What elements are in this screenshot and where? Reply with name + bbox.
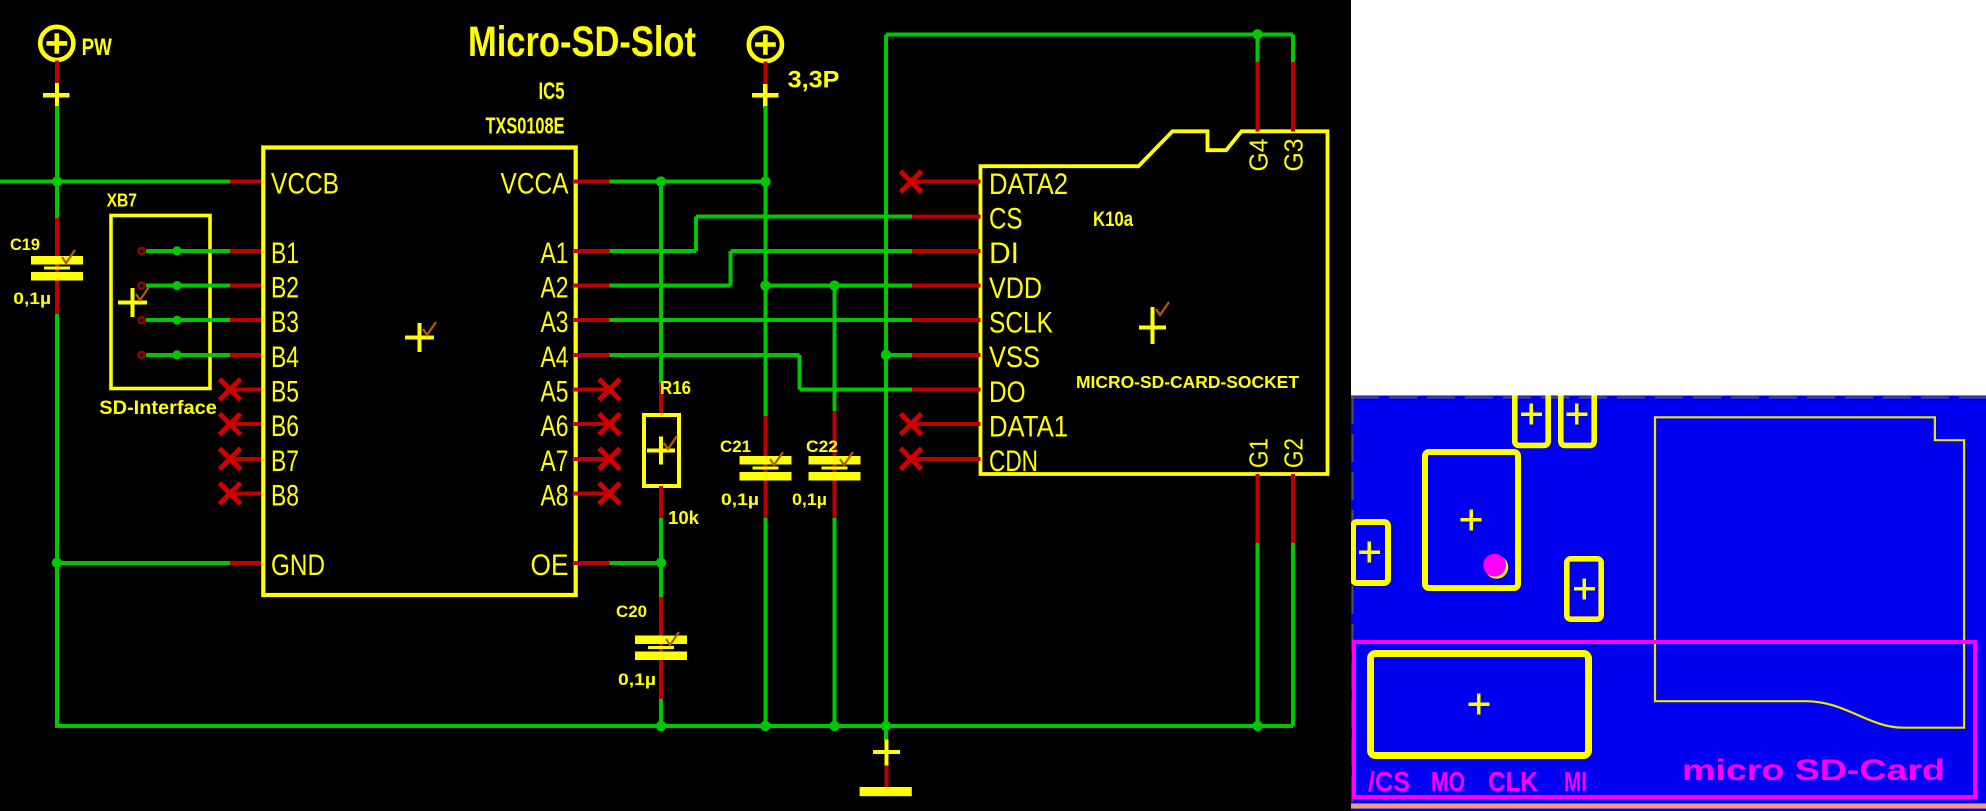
pin OE stub: [574, 561, 610, 565]
pin IC5 B7 stub (n/c): [233, 457, 265, 461]
junction XB7 B1: [172, 246, 181, 255]
svg-text:SCLK: SCLK: [989, 307, 1053, 340]
wire VDD row: [765, 284, 912, 288]
pin K10a DI stub: [912, 249, 981, 253]
junction VCCA/3,3P: [760, 176, 770, 186]
pin XB7 B4 ring: [139, 352, 145, 358]
pin IC5 B6 stub (n/c): [233, 422, 265, 426]
capacitor C19: [31, 256, 83, 281]
pin K10a CDN stub: [912, 457, 981, 461]
svg-text:C21: C21: [720, 437, 751, 456]
wire A2 row: [610, 284, 731, 288]
node C21 origin check: [770, 452, 783, 465]
svg-text:C20: C20: [616, 602, 647, 621]
junction VSS row: [881, 350, 891, 360]
svg-text:R16: R16: [660, 378, 691, 398]
svg-text:DATA2: DATA2: [989, 168, 1068, 201]
svg-text:PW: PW: [82, 34, 113, 61]
no-connect X A7: [599, 448, 620, 469]
node 3,3P pin cross: [752, 84, 778, 108]
no-connect X B8: [220, 483, 241, 504]
wire C20 to rail: [659, 699, 663, 726]
svg-text:MO: MO: [1431, 766, 1465, 797]
pin K10a CS stub: [912, 214, 981, 218]
svg-text:MI: MI: [1564, 766, 1587, 797]
supply PW symbol: [40, 27, 73, 60]
svg-text:B4: B4: [271, 341, 299, 374]
svg-text:Micro-SD-Slot: Micro-SD-Slot: [468, 18, 696, 66]
connector XB7 box: [111, 216, 210, 389]
board dimension dashed top edge: [1351, 396, 1986, 398]
capacitor C20: [635, 636, 687, 661]
svg-text:A7: A7: [541, 445, 569, 478]
pad P6 (large, bottom-left): [1371, 654, 1589, 756]
svg-text:B6: B6: [271, 410, 299, 443]
svg-text:VCCA: VCCA: [501, 168, 569, 201]
node IC5 origin check: [423, 322, 436, 335]
svg-text:VCCB: VCCB: [271, 168, 339, 201]
pin K10a G2 stub: [1291, 474, 1295, 543]
junction VDD row: [760, 280, 770, 290]
svg-text:GND: GND: [271, 549, 325, 582]
svg-text:G2: G2: [1279, 438, 1309, 468]
pin A2 stub: [574, 284, 610, 288]
pin K10a DO stub: [912, 388, 981, 392]
wire C22 to rail: [833, 518, 837, 726]
pin IC5 B5 stub (n/c): [233, 388, 265, 392]
svg-text:B1: B1: [271, 237, 299, 270]
pin A3 stub: [574, 318, 610, 322]
wire C19 to GND row: [55, 314, 59, 563]
junction rail C22: [829, 721, 839, 731]
svg-text:0,1µ: 0,1µ: [721, 490, 759, 509]
junction XB7 B4: [172, 350, 181, 359]
board background white area: [1351, 0, 1986, 396]
wire XB7 B4 to IC: [146, 353, 230, 357]
wire bottom GND rail: [55, 724, 1293, 728]
pin K10a DATA1 stub: [912, 422, 981, 426]
pin IC5 B2 stub: [230, 284, 265, 288]
wire A1-CS vertical: [694, 216, 698, 251]
pad P4 (left edge): [1353, 522, 1388, 583]
pin IC5 B4 stub: [230, 353, 265, 357]
node PW pin cross: [43, 83, 69, 108]
junction OE row: [656, 558, 666, 568]
svg-text:XB7: XB7: [107, 191, 137, 211]
svg-text:DO: DO: [989, 376, 1026, 409]
svg-text:A2: A2: [541, 272, 569, 305]
node R16 origin cross: [647, 437, 675, 465]
svg-text:IC5: IC5: [539, 78, 565, 105]
pin A6 stub (n/c): [574, 422, 606, 426]
via (magenta): [1485, 556, 1508, 579]
wire VCCA row: [610, 180, 766, 184]
node XB7 origin cross: [118, 288, 147, 317]
wire A1 row: [610, 249, 697, 253]
wire left rail drop: [55, 563, 59, 726]
svg-text:A3: A3: [541, 306, 569, 339]
wire net PW vertical: [55, 106, 59, 182]
wire VSS link: [886, 353, 912, 357]
svg-text:A8: A8: [541, 479, 569, 512]
svg-text:G1: G1: [1244, 438, 1274, 468]
wire DO row: [800, 388, 912, 392]
pad P3 (large, upper-left): [1425, 452, 1518, 588]
junction rail C21: [760, 721, 770, 731]
board bottom salmon strip: [1351, 803, 1986, 808]
wire top GND rail: [886, 32, 1293, 36]
wire G1 drop: [1256, 543, 1260, 726]
svg-text:C22: C22: [806, 437, 838, 456]
pin C19 pin1: [55, 218, 59, 315]
wire CS row: [696, 214, 912, 218]
silk frame (magenta): [1354, 642, 1975, 797]
wire SCLK row: [610, 318, 913, 322]
wire GND vertical: [884, 34, 888, 726]
sd-card outline: [1655, 417, 1964, 727]
pin XB7 B3 ring: [139, 317, 145, 323]
svg-text:/CS: /CS: [1368, 766, 1410, 797]
ground symbol bar: [860, 787, 912, 796]
svg-text:A5: A5: [541, 376, 569, 409]
wire C22 column: [833, 286, 837, 412]
svg-text:DATA1: DATA1: [989, 410, 1068, 443]
svg-text:VDD: VDD: [989, 272, 1042, 305]
pin K10a SCLK stub: [912, 318, 981, 322]
pin K10a G4 stub: [1256, 62, 1260, 131]
junction PW/VCCB/C19: [52, 176, 62, 186]
wire net PW row to VCCB: [0, 180, 230, 184]
wire DI row: [731, 249, 913, 253]
junction XB7 B2: [172, 281, 181, 290]
wire A4 row: [610, 353, 800, 357]
pin K10a VDD stub: [912, 284, 981, 288]
ground symbol link: [884, 726, 888, 740]
pin K10a G1 stub: [1256, 474, 1260, 543]
wire XB7 B3 to IC: [146, 318, 230, 322]
pin C20 pin1: [659, 597, 663, 700]
node XB7 origin check: [136, 287, 149, 300]
pin VCCB stub: [230, 180, 265, 184]
ground symbol pin: [884, 765, 888, 788]
pin K10a VSS stub: [912, 353, 981, 357]
wire 3,3P drop: [763, 106, 767, 182]
svg-text:B3: B3: [271, 306, 299, 339]
resistor R16 box: [644, 415, 679, 486]
svg-text:0,1µ: 0,1µ: [792, 490, 827, 509]
pin R16 pin2: [659, 486, 663, 519]
svg-text:G4: G4: [1244, 139, 1274, 172]
junction rail C20: [656, 721, 666, 731]
node C19 origin check: [62, 250, 75, 263]
node IC5 origin cross: [405, 323, 434, 352]
svg-text:3,3P: 3,3P: [788, 67, 840, 94]
no-connect X B7: [220, 448, 241, 469]
pad P1 (top): [1515, 390, 1548, 445]
junction VCCA/R16 column: [656, 176, 666, 186]
wire G2 drop: [1291, 543, 1295, 726]
svg-text:VSS: VSS: [989, 341, 1040, 374]
pad P5 (center): [1567, 559, 1601, 619]
node C22 origin check: [840, 452, 853, 465]
svg-text:A4: A4: [541, 341, 569, 374]
wire G3 link: [1291, 34, 1295, 63]
board dimension dashed left edge: [1351, 396, 1353, 802]
node C20 origin check: [666, 632, 679, 645]
no-connect X A8: [599, 483, 620, 504]
pin IC5 B3 stub: [230, 318, 265, 322]
node R16 origin check: [664, 436, 677, 449]
svg-text:K10a: K10a: [1093, 208, 1133, 231]
pin A1 stub: [574, 249, 610, 253]
pin A7 stub (n/c): [574, 457, 606, 461]
node K10a origin cross: [1139, 307, 1166, 344]
svg-text:OE: OE: [531, 549, 569, 582]
pin IC5 B8 stub (n/c): [233, 491, 265, 495]
junction top rail G4: [1252, 29, 1262, 39]
pin A5 stub (n/c): [574, 388, 606, 392]
svg-text:0,1µ: 0,1µ: [13, 289, 51, 308]
junction rail G1: [1252, 721, 1262, 731]
pad P2 (top): [1561, 390, 1594, 445]
svg-text:MICRO-SD-CARD-SOCKET: MICRO-SD-CARD-SOCKET: [1076, 372, 1299, 392]
pin A4 stub: [574, 353, 610, 357]
wire R16 to OE and C20: [659, 518, 663, 598]
pin K10a G3 stub: [1291, 62, 1295, 131]
junction C22 top: [829, 280, 839, 290]
junction XB7 B3: [172, 316, 181, 325]
junction GND row left: [52, 558, 62, 568]
svg-text:C19: C19: [10, 235, 40, 254]
svg-text:G3: G3: [1279, 139, 1309, 172]
pin C22 pin1: [833, 411, 837, 519]
board blue area: [1351, 396, 1986, 811]
ground symbol pin cross: [873, 739, 900, 765]
svg-text:DI: DI: [989, 237, 1019, 270]
svg-text:TXS0108E: TXS0108E: [486, 112, 565, 138]
wire GND row: [57, 561, 230, 565]
svg-text:10k: 10k: [668, 508, 700, 528]
pin VCCA stub: [574, 180, 610, 184]
wire XB7 B1 to IC: [146, 249, 230, 253]
wire C21 to rail: [763, 518, 767, 726]
svg-text:SD-Interface: SD-Interface: [99, 398, 217, 419]
node K10a origin check: [1156, 302, 1169, 315]
wire G4 link: [1256, 34, 1260, 63]
pin PW stub: [55, 61, 59, 85]
pin A8 stub (n/c): [574, 491, 606, 495]
svg-text:CS: CS: [989, 203, 1023, 236]
pin XB7 B1 ring: [139, 248, 145, 254]
no-connect X A5: [599, 379, 620, 400]
capacitor C22: [809, 456, 861, 481]
wire C19 top link: [55, 182, 59, 218]
no-connect X A6: [599, 414, 620, 435]
wire 3V3 vertical to VDD/C21: [763, 182, 767, 417]
svg-text:B5: B5: [271, 376, 299, 409]
pin C21 pin1: [763, 416, 767, 519]
no-connect X CDN: [901, 448, 922, 469]
wire XB7 B2 to IC: [146, 284, 230, 288]
connector K10a micro-SD socket outline: [981, 131, 1328, 474]
svg-text:0,1µ: 0,1µ: [618, 670, 656, 689]
no-connect X DATA2: [901, 171, 922, 192]
capacitor C21: [739, 456, 791, 481]
no-connect X B5: [220, 379, 241, 400]
wire A2-DI vertical: [729, 251, 733, 286]
wire OE row: [610, 561, 662, 565]
pin XB7 B2 ring: [139, 283, 145, 289]
pin GND stub: [230, 561, 265, 565]
no-connect X B6: [220, 414, 241, 435]
svg-text:B2: B2: [271, 272, 299, 305]
svg-text:micro SD-Card: micro SD-Card: [1682, 754, 1945, 787]
svg-text:A6: A6: [541, 410, 569, 443]
svg-text:A1: A1: [541, 237, 569, 270]
pin IC5 B1 stub: [230, 249, 265, 253]
svg-text:B8: B8: [271, 479, 299, 512]
no-connect X DATA1: [901, 414, 922, 435]
wire R16 column top: [659, 182, 663, 383]
pin K10a DATA2 stub: [912, 180, 981, 184]
svg-text:CDN: CDN: [989, 445, 1038, 478]
svg-text:CLK: CLK: [1488, 766, 1538, 797]
supply 3,3P symbol: [749, 28, 782, 61]
junction rail GND symbol: [881, 721, 891, 731]
svg-text:B7: B7: [271, 445, 299, 478]
pin 3,3P stub: [763, 62, 767, 86]
pin R16 pin1: [659, 383, 663, 416]
IC U IC5 TXS0108E box: [263, 148, 575, 596]
wire A4-DO vertical: [798, 355, 802, 390]
